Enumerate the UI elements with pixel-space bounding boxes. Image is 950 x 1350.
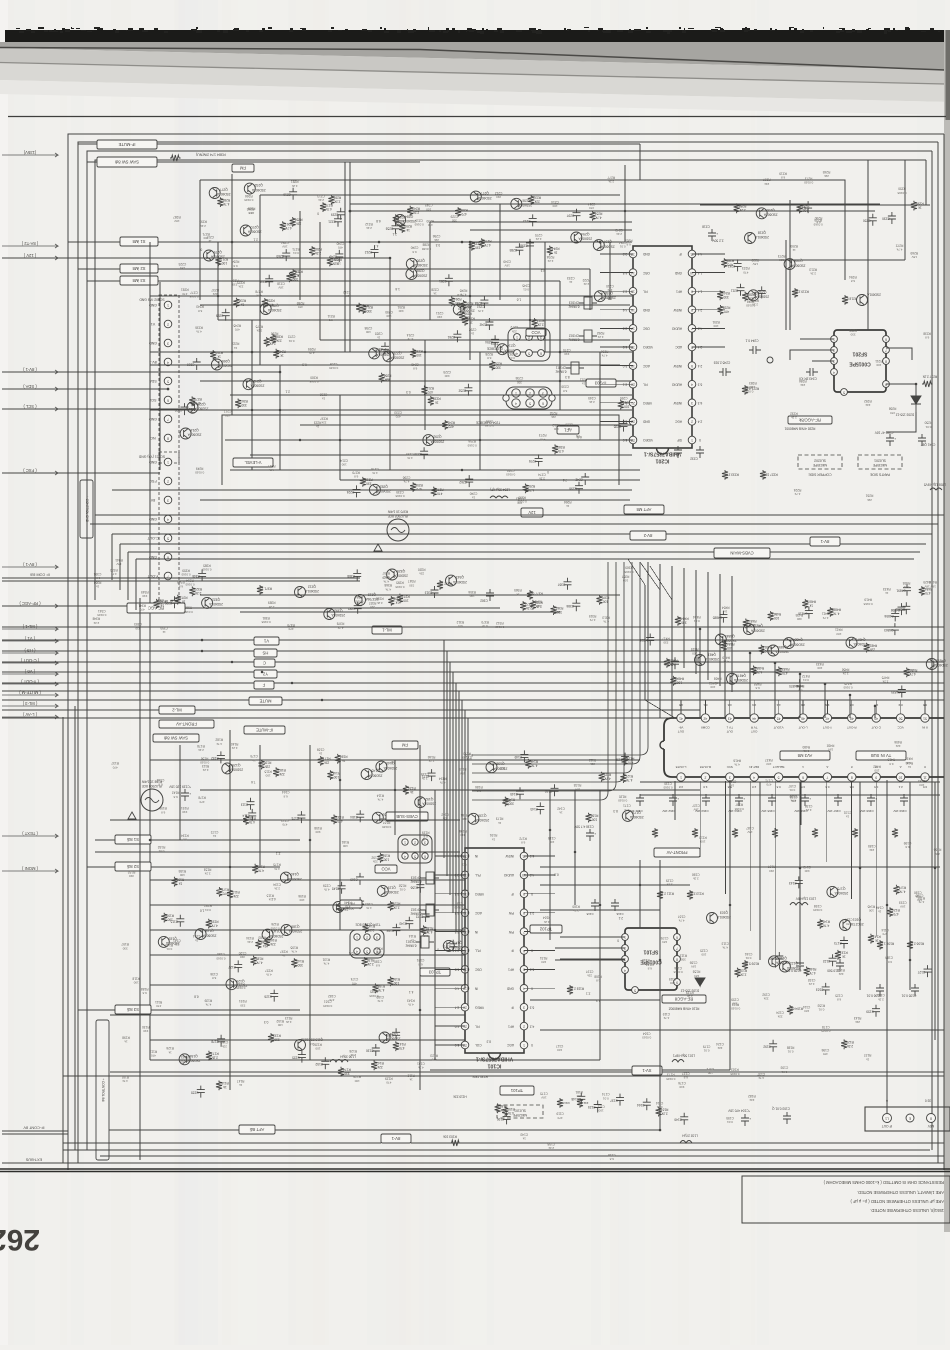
svg-text:R264: R264 [231, 260, 239, 264]
svg-text:22k: 22k [717, 1046, 722, 1050]
svg-text:6.8: 6.8 [354, 474, 359, 478]
svg-text:100: 100 [670, 981, 675, 985]
svg-text:22k: 22k [233, 894, 239, 898]
svg-text:4.7k: 4.7k [372, 471, 378, 475]
svg-text:Q481: Q481 [708, 653, 716, 657]
svg-text:330: 330 [122, 946, 127, 950]
svg-text:330: 330 [536, 604, 541, 608]
svg-text:C197: C197 [586, 969, 594, 973]
svg-text:0.01: 0.01 [787, 1050, 793, 1054]
svg-text:R112: R112 [407, 1073, 415, 1077]
svg-text:Q125: Q125 [232, 763, 240, 767]
svg-text:2.1: 2.1 [586, 991, 591, 995]
svg-text:2.2k: 2.2k [842, 672, 848, 676]
svg-text:2.2k: 2.2k [616, 232, 622, 236]
svg-text:1k: 1k [498, 821, 502, 825]
svg-text:8.3: 8.3 [540, 268, 545, 272]
connector row AV labels [678, 725, 928, 733]
svg-text:1k: 1k [491, 837, 495, 841]
wire lower bus 1 [200, 789, 700, 791]
wire upper vert extra 2 [319, 222, 321, 340]
svg-text:0.0165: 0.0165 [323, 1004, 333, 1008]
svg-text:R314: R314 [186, 579, 194, 583]
svg-text:100: 100 [416, 353, 422, 357]
svg-text:C164: C164 [637, 1103, 645, 1107]
svg-text:330: 330 [241, 403, 247, 407]
wire lower bus 15 [530, 999, 660, 1001]
wire row2 drops [675, 781, 877, 968]
svg-text:0.0165: 0.0165 [731, 1006, 741, 1010]
wire bus C [2, 661, 944, 663]
svg-text:4.7k: 4.7k [822, 616, 828, 620]
svg-text:C285: C285 [509, 248, 517, 252]
footer notes box [742, 1176, 950, 1223]
svg-text:C181: C181 [575, 1090, 583, 1094]
svg-text:R131: R131 [322, 957, 330, 961]
svg-text:100: 100 [469, 594, 474, 598]
svg-text:R132: R132 [739, 968, 747, 972]
wire bus V1 [2, 639, 944, 641]
input arrow MONI [2, 866, 58, 873]
label box MUTE [249, 697, 282, 705]
svg-text:R299: R299 [464, 312, 472, 316]
svg-text:R243: R243 [412, 207, 420, 211]
svg-text:C367 18V: C367 18V [827, 809, 840, 813]
svg-text:C284: C284 [474, 301, 482, 305]
svg-text:S3 iM8: S3 iM8 [132, 278, 146, 283]
wire upper vert extra 11 [599, 352, 601, 440]
wire lower bus 11 [540, 866, 940, 868]
input arrow ML-3 [2, 701, 58, 708]
svg-text:6.8: 6.8 [376, 219, 381, 223]
svg-text:HS: HS [262, 651, 268, 656]
text M48000 label [669, 1007, 700, 1011]
svg-text:C171: C171 [623, 804, 631, 808]
transistor Q101 [840, 918, 864, 931]
svg-text:9: 9 [875, 775, 877, 779]
svg-text:0.01: 0.01 [288, 339, 294, 343]
svg-text:330: 330 [129, 874, 134, 878]
wire upper vert pair [344, 162, 346, 352]
svg-text:Q292: Q292 [433, 435, 441, 439]
svg-text:C130: C130 [366, 1049, 374, 1053]
svg-text:R126: R126 [314, 1043, 322, 1047]
svg-text:SAW SW 8di: SAW SW 8di [164, 736, 188, 741]
svg-text:C214: C214 [406, 333, 414, 337]
svg-text:C365 18V: C365 18V [761, 809, 774, 813]
svg-text:22k: 22k [870, 647, 876, 651]
svg-text:1.6: 1.6 [457, 293, 462, 297]
svg-text:SC402 IYB GND: SC402 IYB GND [139, 298, 165, 302]
wire S1 8di run [95, 839, 300, 841]
svg-text:2SD601A: 2SD601A [218, 364, 233, 368]
svg-text:6.8: 6.8 [142, 991, 147, 995]
svg-text:2.2k: 2.2k [539, 477, 545, 481]
svg-text:2.2k: 2.2k [847, 1044, 853, 1048]
svg-text:0: 0 [617, 938, 619, 942]
svg-text:0.0165: 0.0165 [97, 613, 107, 617]
svg-text:330: 330 [681, 621, 687, 625]
svg-text:Q175: Q175 [837, 886, 845, 890]
svg-text:18V: 18V [505, 264, 510, 268]
svg-text:R174: R174 [898, 886, 906, 890]
svg-text:L101 56µH 8P1: L101 56µH 8P1 [673, 1054, 695, 1058]
svg-text:C4863: C4863 [884, 628, 894, 632]
svg-text:C250: C250 [863, 218, 871, 222]
svg-text:Q4884: Q4884 [793, 638, 803, 642]
svg-text:2.2k: 2.2k [421, 776, 427, 780]
svg-text:VHIBA7357S/-1: VHIBA7357S/-1 [476, 1055, 513, 1061]
svg-text:470: 470 [223, 892, 229, 896]
svg-text:AFT M8: AFT M8 [636, 507, 651, 512]
wire upper vert extra 1 [259, 195, 261, 365]
capacitor C232 C233 group [674, 446, 704, 461]
svg-text:Q186: Q186 [291, 925, 299, 929]
svg-text:470: 470 [182, 292, 187, 296]
svg-text:4.1: 4.1 [409, 990, 414, 994]
svg-text:R113: R113 [699, 835, 707, 839]
wire upper bus 7 [230, 469, 640, 471]
svg-text:7: 7 [885, 348, 887, 352]
svg-text:R211: R211 [327, 314, 335, 318]
svg-text:330: 330 [850, 333, 855, 337]
wire bus drop 6 [849, 694, 851, 718]
svg-text:R389: R389 [268, 601, 276, 605]
control gnd box upper [80, 480, 93, 538]
svg-text:4.7k: 4.7k [756, 670, 762, 674]
svg-text:4.7k: 4.7k [604, 777, 610, 781]
svg-text:R194: R194 [439, 776, 447, 780]
svg-text:0.3: 0.3 [302, 362, 307, 366]
capacitor C110 [827, 959, 844, 973]
svg-text:C175: C175 [540, 1091, 548, 1095]
transistor Q113 [295, 1038, 324, 1051]
svg-text:C297: C297 [566, 213, 574, 217]
svg-text:0.01: 0.01 [781, 1070, 787, 1074]
svg-text:8V-2: 8V-2 [643, 533, 652, 538]
svg-text:C155: C155 [191, 1090, 199, 1094]
svg-text:R296: R296 [271, 331, 279, 335]
svg-text:2.2k: 2.2k [428, 759, 434, 763]
svg-text:AGC: AGC [474, 911, 482, 915]
svg-text:4: 4 [624, 968, 626, 972]
svg-text:1k: 1k [208, 239, 212, 243]
svg-text:C299: C299 [406, 452, 414, 456]
svg-text:R280: R280 [314, 247, 322, 251]
svg-text:100: 100 [707, 1071, 712, 1075]
svg-text:R296: R296 [456, 303, 464, 307]
svg-text:330: 330 [495, 365, 501, 369]
svg-text:330: 330 [297, 963, 303, 967]
svg-text:2.2k: 2.2k [573, 909, 579, 913]
svg-text:6.8: 6.8 [178, 584, 183, 588]
svg-text:22k: 22k [855, 1020, 860, 1024]
svg-text:R281: R281 [181, 288, 189, 292]
svg-text:470: 470 [352, 981, 357, 985]
svg-text:R261: R261 [285, 222, 293, 226]
svg-text:6.8: 6.8 [504, 803, 509, 807]
svg-text:2SD601A: 2SD601A [413, 273, 428, 277]
svg-text:0.5: 0.5 [874, 785, 879, 789]
svg-text:2.1: 2.1 [253, 238, 258, 242]
svg-text:C-OUT: C-OUT [147, 536, 159, 540]
svg-text:R143: R143 [296, 959, 304, 963]
svg-text:2SD601A: 2SD601A [229, 768, 244, 772]
wire upper bus 1 [150, 295, 632, 297]
svg-text:R244: R244 [722, 291, 730, 295]
label smudge lower right [556, 779, 926, 1090]
input arrow 8V-1 [2, 562, 58, 569]
svg-text:R156: R156 [392, 977, 400, 981]
svg-text:Q214: Q214 [190, 428, 198, 432]
svg-text:L204 39µH(T): L204 39µH(T) [490, 488, 510, 492]
svg-text:C212: C212 [495, 191, 503, 195]
svg-text:C162: C162 [220, 1040, 228, 1044]
svg-text:6.0MHz: 6.0MHz [555, 370, 566, 374]
svg-text:C214: C214 [551, 200, 559, 204]
svg-text:C252: C252 [458, 389, 466, 393]
svg-text:0.01: 0.01 [925, 425, 931, 429]
svg-text:R271: R271 [292, 247, 300, 251]
svg-text:2SD601A: 2SD601A [853, 642, 868, 646]
svg-text:4.7k: 4.7k [256, 294, 262, 298]
wire upper bus extra 3 [430, 221, 632, 223]
wire mid bus 4 [120, 543, 926, 545]
svg-text:R212: R212 [552, 423, 560, 427]
transistor cluster lower-top Q104 Q105 [211, 751, 436, 825]
svg-text:R177: R177 [211, 1052, 219, 1056]
svg-text:1k: 1k [168, 1050, 172, 1054]
svg-text:R278: R278 [255, 289, 263, 293]
svg-text:C176: C176 [678, 1081, 686, 1085]
svg-text:100: 100 [576, 1094, 581, 1098]
svg-text:100: 100 [710, 685, 715, 689]
svg-text:4.7k: 4.7k [722, 946, 728, 950]
svg-text:4.7k: 4.7k [274, 867, 280, 871]
ground marker X101 [128, 812, 136, 819]
svg-text:18V: 18V [384, 575, 389, 579]
svg-text:C292: C292 [319, 392, 327, 396]
label box 8V-2 [630, 531, 666, 540]
svg-text:R259: R259 [849, 328, 857, 332]
svg-text:1k: 1k [875, 939, 879, 943]
svg-text:22k: 22k [551, 415, 556, 419]
frame wire fourth [95, 160, 926, 600]
svg-text:R139: R139 [204, 998, 212, 1002]
svg-text:R445: R445 [844, 682, 852, 686]
transistor cluster upper mid Q208 Q203 [455, 191, 615, 255]
wire IF COM run [95, 578, 360, 581]
svg-text:1k: 1k [223, 1085, 227, 1089]
capacitor C244 [745, 339, 761, 354]
svg-text:0: 0 [317, 211, 319, 215]
svg-text:R199: R199 [166, 913, 174, 917]
capacitor C103 bottom [771, 1107, 791, 1124]
svg-text:R472: R472 [802, 674, 810, 678]
svg-text:INSW: INSW [674, 308, 682, 312]
wire upper bus extra 2 [350, 203, 880, 205]
svg-text:R346: R346 [534, 600, 542, 604]
transistor cluster mid Q212 Q213 [324, 569, 610, 620]
svg-text:Q145: Q145 [371, 769, 379, 773]
svg-text:ML-1: ML-1 [382, 628, 392, 633]
svg-text:2.2k: 2.2k [350, 1053, 356, 1057]
transistor cluster lower-left Q108 Q102 [158, 864, 304, 1002]
resistor R103 bottom [443, 1135, 461, 1146]
wire lower control verticals [128, 598, 140, 1160]
wire lower bus 14 [555, 959, 625, 961]
svg-text:C249: C249 [503, 259, 511, 263]
svg-text:OSC: OSC [642, 327, 650, 331]
svg-text:VCC: VCC [897, 725, 904, 729]
svg-text:R264: R264 [454, 297, 462, 301]
svg-text:1k: 1k [240, 302, 244, 306]
svg-text:R189: R189 [255, 956, 263, 960]
wire upper bus 4 [200, 380, 632, 382]
svg-text:50: 50 [899, 716, 903, 720]
svg-text:6.8: 6.8 [850, 279, 855, 283]
svg-text:22k: 22k [867, 498, 872, 502]
svg-text:C129: C129 [666, 878, 674, 882]
svg-text:C211: C211 [731, 288, 739, 292]
svg-text:C186: C186 [692, 873, 700, 877]
svg-text:C4835: C4835 [891, 690, 901, 694]
svg-text:R232: R232 [790, 411, 798, 415]
label box S1 8di [115, 835, 151, 844]
svg-text:2SD601A: 2SD601A [250, 383, 265, 387]
capacitor C243 [799, 368, 818, 381]
input arrow IF COM 8di double [2, 572, 95, 581]
svg-text:R173: R173 [496, 817, 504, 821]
svg-text:IF: IF [511, 892, 514, 896]
svg-text:R216: R216 [334, 257, 342, 261]
svg-text:2.2k: 2.2k [686, 995, 692, 999]
svg-text:C122: C122 [823, 959, 831, 963]
svg-text:100: 100 [727, 646, 733, 650]
svg-text:SCL: SCL [150, 398, 157, 402]
svg-text:R480: R480 [802, 745, 810, 749]
wire upper bus 3 [150, 351, 632, 353]
svg-text:R191: R191 [176, 878, 184, 882]
input arrow FSC [2, 468, 58, 475]
svg-text:R191: R191 [489, 833, 497, 837]
svg-text:R167: R167 [383, 821, 391, 825]
svg-text:( ML-3 ): ( ML-3 ) [22, 701, 37, 706]
wire upper vert extra 4 [499, 204, 501, 300]
svg-text:0.0165: 0.0165 [195, 470, 205, 474]
wire 8V-1 run [2, 371, 281, 374]
label smudge upper half extra [178, 191, 623, 498]
svg-text:R212: R212 [365, 222, 373, 226]
wire upper bus extra 7 [230, 394, 632, 396]
svg-text:6.8: 6.8 [781, 175, 786, 179]
wire upper bus 2 [218, 319, 632, 321]
svg-text:C253: C253 [385, 227, 393, 231]
svg-text:R435: R435 [795, 613, 803, 617]
svg-text:C114: C114 [656, 1101, 664, 1105]
wire right top bus b [725, 259, 905, 261]
svg-text:4.7k: 4.7k [626, 778, 632, 782]
svg-text:TP203: TP203 [594, 381, 607, 386]
svg-text:AF1: AF1 [508, 968, 514, 972]
svg-text:R269: R269 [910, 251, 918, 255]
svg-text:C313: C313 [424, 591, 432, 595]
svg-text:100: 100 [354, 1079, 359, 1083]
IC IC201 VHIBA7357S/-1 [623, 246, 703, 463]
svg-text:8V: 8V [150, 498, 155, 502]
svg-text:R4846: R4846 [679, 617, 689, 621]
svg-text:6.8: 6.8 [412, 250, 417, 254]
svg-text:2.2k: 2.2k [393, 906, 399, 910]
svg-text:18V: 18V [643, 962, 648, 966]
svg-text:6.8: 6.8 [925, 336, 930, 340]
svg-text:R213: R213 [809, 268, 817, 272]
label box CVBS-MAIN [714, 548, 770, 558]
svg-text:R175: R175 [273, 863, 281, 867]
connector block outline [660, 718, 944, 777]
svg-text:5: 5 [528, 351, 530, 355]
svg-text:0.0165: 0.0165 [185, 583, 195, 587]
wire upper vert 2 [469, 242, 471, 360]
wire bus drop 1 [724, 640, 726, 718]
svg-text:100: 100 [592, 817, 598, 821]
svg-text:IC101: IC101 [487, 1062, 501, 1068]
svg-text:6.8: 6.8 [577, 435, 582, 439]
svg-text:R413: R413 [887, 758, 895, 762]
svg-text:330: 330 [315, 830, 320, 834]
svg-text:3: 3 [376, 935, 378, 939]
wire mid right drop 5 [707, 572, 709, 680]
svg-text:R295: R295 [308, 347, 316, 351]
wire lower vert extra 11 [639, 860, 641, 928]
svg-text:GND: GND [642, 420, 650, 424]
svg-text:R285: R285 [222, 198, 230, 202]
svg-text:100: 100 [335, 262, 340, 266]
svg-text:R183: R183 [258, 935, 266, 939]
svg-text:22k: 22k [511, 329, 516, 333]
svg-text:1k: 1k [217, 355, 221, 359]
svg-text:IF COM 8di: IF COM 8di [30, 572, 50, 576]
svg-text:Q294: Q294 [581, 232, 589, 236]
wire junction [349, 210, 352, 213]
input arrow C-OUT [2, 658, 58, 665]
svg-text:S1 8di: S1 8di [127, 837, 139, 842]
svg-text:18V: 18V [693, 808, 698, 812]
svg-text:4.7k: 4.7k [477, 309, 483, 313]
svg-text:C137: C137 [757, 1072, 765, 1076]
component cluster mid right extra [639, 607, 899, 675]
svg-text:R296: R296 [601, 350, 609, 354]
svg-text:R268: R268 [889, 407, 897, 411]
ceramic filter CF103 [410, 872, 439, 884]
svg-text:C4855: C4855 [895, 607, 905, 611]
svg-text:SELECT: SELECT [773, 765, 785, 769]
svg-text:1k: 1k [878, 910, 882, 914]
wire upper bus 5 [150, 409, 632, 411]
svg-text:R288: R288 [739, 204, 747, 208]
svg-text:Q257: Q257 [604, 240, 612, 244]
svg-text:0.01: 0.01 [509, 356, 515, 360]
svg-text:R114: R114 [408, 934, 416, 938]
svg-text:R416: R416 [733, 758, 741, 762]
svg-text:100: 100 [157, 602, 162, 606]
svg-text:1k: 1k [342, 759, 346, 763]
svg-text:0.5: 0.5 [825, 785, 830, 789]
component cluster upper fill A [439, 274, 616, 342]
svg-text:6: 6 [542, 401, 544, 405]
svg-text:18V: 18V [180, 266, 185, 270]
svg-text:R419: R419 [864, 598, 872, 602]
